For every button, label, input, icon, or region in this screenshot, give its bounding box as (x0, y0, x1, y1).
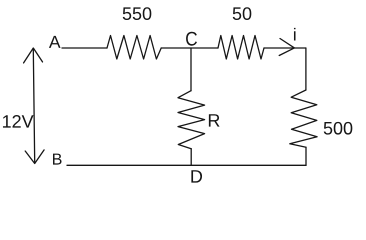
wire resistor R to node D (190, 149, 192, 166)
node A (49, 36, 61, 48)
wire A to resistor 550 (62, 47, 107, 49)
label 500 (324, 122, 353, 135)
label 50 (233, 7, 252, 20)
node D (191, 170, 202, 182)
resistor 550 (107, 36, 161, 60)
label R (209, 114, 220, 126)
resistor 50 (218, 36, 264, 60)
resistor R (178, 91, 205, 149)
wire resistor 550 to resistor 50 (161, 47, 218, 49)
node B (53, 154, 62, 165)
label 550 (123, 7, 152, 20)
resistor 500 (290, 90, 317, 147)
wire top-right corner down to resistor 500 (305, 48, 307, 90)
label i (294, 28, 296, 41)
node C (186, 32, 197, 46)
bottom wire B to D to bottom-right corner (67, 164, 306, 166)
wire resistor 50 to top-right corner (264, 47, 306, 49)
wire node C down to resistor R (190, 48, 192, 91)
label 12V (3, 115, 34, 128)
current arrow i (279, 39, 294, 56)
voltage source double arrow (24, 48, 44, 164)
wire resistor 500 to bottom wire (305, 147, 307, 165)
